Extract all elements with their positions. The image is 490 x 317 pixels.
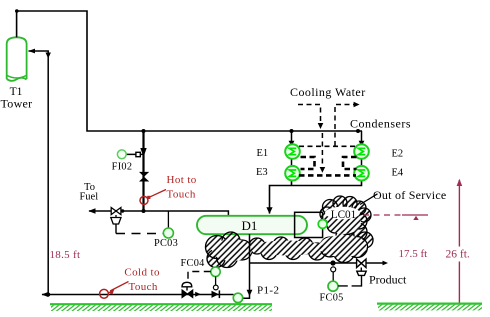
ground right xyxy=(377,304,482,311)
cooling dashed bottom link E3-E4 xyxy=(299,174,356,177)
condenser drop E2 xyxy=(361,131,363,146)
cooling dashed bracket left xyxy=(301,157,315,169)
arrow cooling return right xyxy=(354,102,360,108)
svg-text:E4: E4 xyxy=(392,168,404,179)
drum D1 xyxy=(197,216,307,234)
condenser E4 xyxy=(354,166,369,181)
junction FI02 tap square xyxy=(136,152,140,156)
arrow into tower xyxy=(28,49,35,54)
condenser E1 xyxy=(285,144,300,159)
wire condensate header to D1 xyxy=(270,180,362,214)
svg-text:Touch: Touch xyxy=(129,281,158,293)
dimension 17.5 level mark xyxy=(363,215,428,220)
svg-text:Tower: Tower xyxy=(1,97,33,111)
svg-text:Touch: Touch xyxy=(167,189,196,201)
cooling dashed mid riser xyxy=(321,133,323,167)
svg-text:FI02: FI02 xyxy=(112,162,133,173)
svg-text:18.5 ft: 18.5 ft xyxy=(50,249,81,261)
FC05 tap circle xyxy=(331,267,336,272)
condenser drop E1 xyxy=(291,131,293,146)
svg-text:D1: D1 xyxy=(242,218,258,233)
cold-to-touch marker circle xyxy=(100,289,109,298)
cooling water return dashed xyxy=(335,105,354,147)
junction left riser bottom xyxy=(46,293,50,297)
wire D1 downcomer to pump xyxy=(243,234,250,298)
hot-to-touch marker circle xyxy=(140,196,148,204)
svg-text:P1-2: P1-2 xyxy=(257,285,279,297)
junction overhead corner xyxy=(15,9,19,13)
svg-text:FC04: FC04 xyxy=(181,258,205,269)
cloud around LC01 xyxy=(320,196,371,245)
wire FI02 tap xyxy=(126,153,144,155)
cooling dashed bracket right xyxy=(343,157,357,169)
arrow to fuel xyxy=(88,208,95,213)
FC05 signal dashed to actuator xyxy=(338,275,361,286)
wire FC04 to check valve xyxy=(215,277,217,286)
svg-text:Product: Product xyxy=(369,273,407,287)
svg-text:PC03: PC03 xyxy=(154,238,178,249)
arrow E2 drop xyxy=(359,141,365,147)
wire fuel-gas header xyxy=(89,211,228,217)
valve V1 block valve (vertical, filled) xyxy=(139,172,149,182)
dimension 26 ft line xyxy=(457,179,463,304)
hot-to-touch leader xyxy=(147,190,166,200)
wire FI02 valve riser xyxy=(142,131,144,211)
svg-text:Cooling Water: Cooling Water xyxy=(290,85,366,99)
junction fuel header b xyxy=(142,209,146,213)
arrow mid riser down xyxy=(320,167,326,173)
junction E2 drop xyxy=(356,129,360,133)
cooling dashed top link E1-E2 xyxy=(299,145,356,147)
wire tower reflux return xyxy=(29,51,49,295)
FC04 control valve xyxy=(182,290,193,298)
junction FC05 tap xyxy=(330,260,335,265)
instrument FC05 xyxy=(328,281,338,291)
wire PC03 signal (dashed) xyxy=(115,224,117,234)
FC04 signal dashed xyxy=(188,272,211,282)
instrument FC04 xyxy=(211,267,220,276)
arrow into D1 xyxy=(266,207,272,214)
svg-text:E1: E1 xyxy=(257,148,269,159)
cloud lower chain xyxy=(206,232,374,268)
valve PV fuel control valve xyxy=(111,208,121,215)
arrow flow right after valve xyxy=(195,292,201,297)
level tap circle xyxy=(318,220,327,229)
out-of-service leader xyxy=(360,194,378,205)
LC01 text window xyxy=(325,207,360,220)
label Cold to Touch xyxy=(124,267,160,293)
wire tower overhead to condensers header xyxy=(17,11,362,131)
svg-text:Fuel: Fuel xyxy=(79,192,98,203)
svg-text:FC05: FC05 xyxy=(320,293,344,304)
label Hot to Touch xyxy=(167,174,197,201)
instrument PC03 xyxy=(163,228,173,238)
arrow riser down xyxy=(140,148,146,157)
condenser E2 xyxy=(354,144,369,159)
instrument FI02 xyxy=(117,150,126,159)
wire pump suction header xyxy=(42,294,234,296)
valve product control valve xyxy=(357,259,366,267)
svg-text:E2: E2 xyxy=(392,149,404,160)
wire E1-E3 connector xyxy=(291,158,293,167)
product valve actuator bucket xyxy=(357,268,366,276)
label To Fuel xyxy=(79,182,98,203)
level bridle box xyxy=(295,212,323,237)
cold-to-touch leader arrow xyxy=(108,282,128,295)
check valve after FC04 xyxy=(212,285,220,298)
wire PC03 tap xyxy=(167,211,169,228)
wire FC05 tap xyxy=(332,272,334,281)
wire product line xyxy=(250,262,385,264)
condenser E3 xyxy=(285,166,300,181)
junction riser top xyxy=(142,129,146,133)
svg-text:17.5 ft: 17.5 ft xyxy=(399,248,428,260)
ground left xyxy=(50,304,272,311)
cloud filler xyxy=(212,210,367,261)
pump P1-2 xyxy=(233,293,242,302)
FC04 valve actuator xyxy=(182,282,192,290)
junction fuel header a xyxy=(121,209,124,212)
actuator bucket under fuel valve xyxy=(111,215,121,224)
tower T1 vessel xyxy=(7,37,27,81)
svg-text:Hot to: Hot to xyxy=(167,174,197,186)
svg-text:LC01: LC01 xyxy=(331,209,356,221)
svg-text:Condensers: Condensers xyxy=(350,117,411,131)
arrow downcomer xyxy=(247,290,253,296)
arrow cooling supply down xyxy=(318,123,324,129)
svg-text:Out of Service: Out of Service xyxy=(373,188,446,202)
label T1 Tower xyxy=(1,86,33,111)
svg-text:26 ft.: 26 ft. xyxy=(446,249,470,261)
wire E2-E4 connector xyxy=(361,158,363,167)
arrow product right xyxy=(383,261,389,266)
junction E1 drop xyxy=(290,129,294,133)
svg-text:E3: E3 xyxy=(256,167,268,178)
arrow E1 drop xyxy=(289,141,295,147)
arrow down reflux xyxy=(46,53,51,59)
cooling water supply dashed xyxy=(298,105,321,126)
arrow suction left xyxy=(42,292,49,297)
svg-text:Cold to: Cold to xyxy=(124,267,160,279)
